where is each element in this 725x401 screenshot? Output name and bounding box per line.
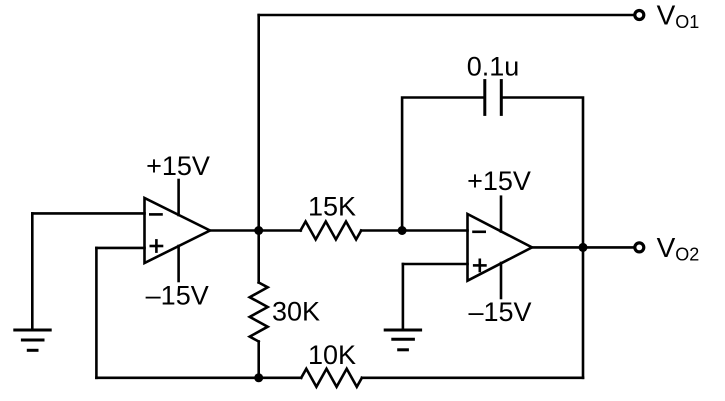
node A junction dot (254, 226, 263, 235)
node D junction dot (254, 373, 263, 382)
wire U1 output to node A to R1 (210, 229, 301, 232)
svg-text:15K: 15K (308, 192, 356, 222)
resistor R1 15K (301, 222, 362, 240)
svg-text:+15V: +15V (146, 151, 210, 181)
wire capacitor right to node C riser (503, 98, 583, 248)
svg-text:0.1u: 0.1u (467, 52, 520, 82)
ground GND1 (left) (15, 330, 50, 350)
ground GND2 (middle) (385, 330, 420, 350)
wire top rail from node A riser to VO1 terminal (259, 14, 634, 17)
wire bottom rail left of R3 (96, 376, 301, 379)
node C junction dot (579, 243, 588, 252)
wire bottom rail right of R3 (362, 376, 583, 379)
op-amp U1 (145, 198, 211, 263)
wire middle ground drop (402, 264, 405, 330)
wire feedback left drop (95, 248, 98, 378)
svg-text:–15V: –15V (146, 281, 209, 311)
resistor R3 10K (301, 369, 362, 387)
power stub -15V U1 (177, 246, 180, 281)
op-amp U2 (468, 214, 533, 281)
wire U1 inverting input (32, 212, 144, 215)
svg-text:–15V: –15V (468, 297, 531, 327)
capacitor C1 0.1u (485, 81, 502, 115)
wire node C drop to bottom rail (582, 247, 585, 377)
node B junction dot (398, 226, 407, 235)
wire U2 output to VO2 terminal (532, 246, 633, 249)
terminal VO1 (635, 11, 644, 20)
wire left ground drop (31, 213, 34, 330)
wire riser from node A up to top rail (257, 15, 260, 231)
wire node A drop to R2 (257, 231, 260, 283)
resistor R2 30K (250, 283, 268, 342)
svg-text:30K: 30K (272, 297, 320, 327)
svg-text:+15V: +15V (467, 166, 531, 196)
wire node B riser to capacitor (402, 98, 483, 231)
wire node B to U2 inverting input (402, 229, 467, 232)
wire U2 non-inverting input (403, 263, 468, 266)
power stub -15V U2 (500, 263, 503, 298)
power stub +15V U1 (177, 180, 180, 215)
wire R1 to node B (361, 229, 402, 232)
wire R2 to node D (257, 342, 260, 378)
terminal VO2 (635, 243, 644, 252)
svg-text:10K: 10K (308, 340, 356, 370)
wire U1 non-inverting input (96, 247, 144, 250)
power stub +15V U2 (500, 197, 503, 232)
